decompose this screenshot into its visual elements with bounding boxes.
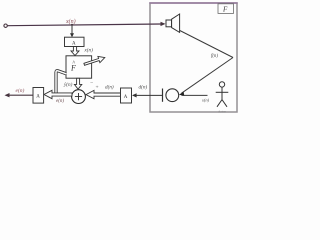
svg-text:x(n): x(n)	[84, 47, 94, 54]
person stick figure head	[219, 82, 224, 87]
hollow arrow: d(n) from A/D box into summation	[86, 90, 121, 98]
svg-text:s(n): s(n)	[202, 98, 210, 103]
svg-text:f(n): f(n)	[211, 54, 218, 59]
D/A converter box (left)	[33, 88, 44, 104]
microphone circle	[166, 89, 179, 102]
loudspeaker	[166, 20, 172, 27]
svg-text:d(n): d(n)	[139, 84, 148, 91]
person legs	[217, 100, 227, 107]
node: input terminal	[4, 24, 7, 27]
node: tap junction on input line	[71, 24, 73, 26]
wire: tap junction down to A/D converter	[71, 25, 73, 34]
svg-text:e(n): e(n)	[56, 99, 64, 104]
svg-text:e(n): e(n)	[16, 87, 25, 94]
svg-text:A: A	[36, 95, 40, 100]
hollow arrow: y-hat(n) from F-hat into summation	[74, 78, 81, 89]
wire: microphone signal into A/D	[133, 94, 163, 96]
summation node	[72, 90, 86, 104]
svg-text:−: −	[90, 80, 93, 86]
adaptive filter box F-hat	[66, 56, 92, 78]
wire: echo path from loudspeaker to wall	[180, 31, 233, 58]
A/D converter box (right)	[121, 88, 132, 103]
A/D converter box (top)	[65, 37, 85, 46]
double-line wire: error feedback to adaptive filter	[56, 71, 66, 93]
room system label box F	[218, 4, 234, 14]
microphone diaphragm bar	[162, 89, 164, 102]
svg-text:^: ^	[72, 61, 75, 67]
room top edge purple tint	[149, 2, 237, 4]
person arms	[216, 91, 229, 93]
svg-text:A: A	[72, 41, 76, 46]
wire: echo path from wall to microphone	[182, 58, 234, 94]
svg-text:A: A	[124, 95, 128, 100]
arrowhead into loudspeaker	[161, 22, 166, 26]
room enclosure box (LEM system)	[150, 3, 237, 112]
person body	[221, 87, 223, 100]
svg-text:x(n): x(n)	[65, 18, 76, 25]
wire: analog error output to far end	[8, 94, 33, 96]
svg-text:Actor: Actor	[218, 110, 227, 114]
hollow arrow: adaptation (adjustable) arrow out of F-hat	[84, 56, 105, 65]
svg-text:+: +	[96, 85, 99, 91]
hollow arrow: error e(n) from summation into D/A box	[44, 90, 72, 98]
svg-text:ŷ(n): ŷ(n)	[63, 81, 73, 88]
svg-text:d(n): d(n)	[105, 83, 114, 90]
wire: far-end input line x(n)	[7, 24, 161, 26]
hollow arrow: digital x(n) into adaptive filter	[71, 47, 79, 56]
arrowhead into microphone	[179, 92, 184, 96]
svg-text:F: F	[222, 6, 228, 14]
wire: near-end speech to microphone	[182, 94, 208, 96]
